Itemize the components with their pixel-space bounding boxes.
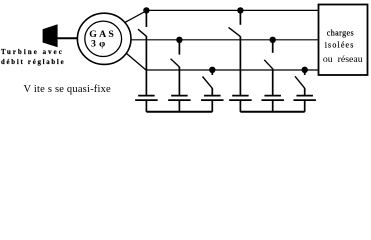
node: junction dot bus1 / branch 4	[237, 7, 243, 13]
load box: charges isolees ou reseau	[319, 5, 368, 76]
node: junction dot bus1 / branch 1	[143, 7, 149, 13]
switch S4 blade (branch4)	[229, 27, 241, 36]
wire: bus 2 (phase B)	[131, 39, 319, 41]
svg-text:charges: charges	[327, 28, 354, 37]
capacitor C2	[168, 96, 191, 112]
wire: generator to bus3 diagonal	[126, 53, 146, 70]
wire: branch3 upper stub from bus3	[211, 70, 213, 75]
wire: star rail of capacitor bank 1	[146, 111, 212, 113]
capacitor C6	[293, 96, 316, 112]
svg-text:Turbine avec: Turbine avec	[1, 49, 64, 56]
node: junction dot bus2 / branch 2	[176, 37, 182, 43]
switch S3 blade (branch3)	[203, 77, 213, 89]
turbine (prime mover, solid trapezoid)	[43, 24, 58, 47]
shaft wire turbine to generator	[58, 37, 78, 39]
switch S1 blade (branch1)	[138, 29, 146, 36]
capacitor C3	[201, 96, 224, 112]
node: junction dot bus3 / branch 3	[209, 67, 215, 73]
wire: branch2 lower run to capacitor C2	[178, 67, 180, 96]
switch S6 blade (branch6)	[295, 76, 305, 88]
wire: branch5 lower run to capacitor C5	[272, 69, 274, 96]
wire: generator to bus1 diagonal	[125, 11, 147, 23]
capacitor C1	[135, 96, 158, 112]
wire: star rail of capacitor bank 2	[240, 111, 304, 113]
wire: branch3 stub to capacitor C3	[211, 88, 213, 96]
capacitor C5	[261, 96, 284, 112]
switch S2 blade (branch2)	[171, 59, 180, 67]
generator U1: GAS 3-phase	[77, 13, 131, 64]
svg-text:isolées: isolées	[325, 41, 355, 50]
node: junction dot bus3 / branch 6	[302, 67, 308, 73]
wire: bus 1 (phase A)	[146, 9, 318, 11]
switch S5 blade (branch5)	[264, 60, 273, 69]
wire: branch5 upper stub from bus2	[272, 40, 274, 53]
wire: branch1 lower run to capacitor C1	[145, 36, 147, 96]
svg-text:3 φ: 3 φ	[91, 39, 106, 50]
wire: branch2 upper stub from bus2	[178, 40, 180, 55]
wire: branch4 lower run to capacitor C4	[239, 36, 241, 95]
svg-text:débit réglable: débit réglable	[1, 59, 65, 66]
wire: branch1 upper stub from bus1	[145, 10, 147, 27]
wire: branch6 upper stub from bus3	[304, 70, 306, 75]
node: junction dot bus2 / branch 5	[270, 37, 276, 43]
wire: bus 3 (phase C)	[146, 69, 319, 71]
svg-text:V ite s se quasi-fixe: V ite s se quasi-fixe	[24, 84, 112, 95]
wire: branch6 stub to capacitor C6	[304, 88, 306, 96]
wire: branch4 upper stub from bus1	[239, 10, 241, 24]
svg-text:ou réseau: ou réseau	[323, 54, 363, 65]
capacitor C4	[229, 96, 252, 112]
